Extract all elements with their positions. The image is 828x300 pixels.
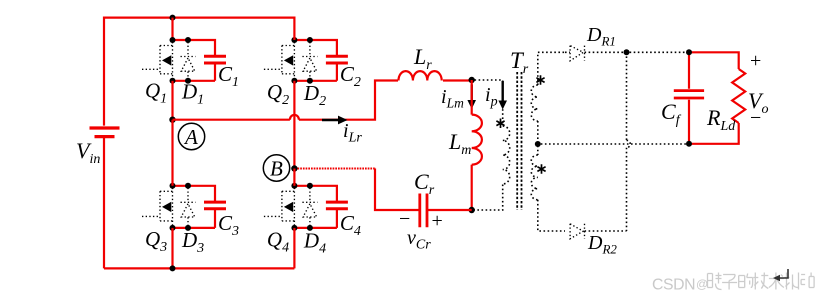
arrow i_p with label xyxy=(485,81,507,110)
transistor Q2 (MOSFET, dotted) xyxy=(264,42,295,108)
wire: secondary center tap lead xyxy=(537,121,539,155)
diode D3 (body diode, dotted) xyxy=(181,188,205,256)
wire: L_m to tank bottom junction xyxy=(471,165,473,210)
capacitor C4 xyxy=(326,202,361,239)
wire: Q2 drain stub xyxy=(293,17,295,41)
wire: D_R2 cathode to link (dotted) xyxy=(585,230,627,232)
transformer secondary upper winding (dotted) xyxy=(531,85,537,121)
wire: Q3 source to bottom rail xyxy=(171,228,173,269)
svg-text:CSDN: CSDN xyxy=(652,277,695,294)
capacitor C2 xyxy=(326,56,361,90)
node A junction xyxy=(169,117,175,123)
wire: bottom rail xyxy=(104,267,294,269)
watermark CSDN xyxy=(652,277,708,294)
svg-text:@: @ xyxy=(696,277,708,291)
arrow i_Lr with label xyxy=(322,116,362,146)
junction dots of cell Q4 xyxy=(291,183,313,231)
svg-text:+: + xyxy=(750,50,761,72)
wire: node B dotted red line to tank xyxy=(298,168,377,170)
svg-text:A: A xyxy=(183,125,198,149)
transistor Q1 (MOSFET, dotted) xyxy=(142,42,173,107)
diode D_R1 (dotted) with label xyxy=(570,24,616,61)
junction dots of cell Q3 xyxy=(170,183,192,231)
junction: tank bottom node xyxy=(469,207,475,213)
wire: cell rails of Q4 xyxy=(294,186,337,228)
transformer primary winding (dotted) xyxy=(503,126,510,184)
svg-text:+: + xyxy=(432,210,443,232)
wire: node A horizontal line xyxy=(173,119,290,121)
diode D_R2 (dotted) with label xyxy=(570,224,617,257)
wire: line to resonant tank xyxy=(299,81,398,120)
wire: cell rails of Q1 xyxy=(173,40,216,81)
node B circled label xyxy=(263,155,289,181)
wire: output top rail red xyxy=(689,52,739,69)
node B junction xyxy=(291,165,297,171)
wire: left leg lower xyxy=(103,138,105,268)
wire: node A to Q3 drain xyxy=(171,120,173,186)
transformer secondary lower winding (dotted) xyxy=(531,155,537,200)
wire: C_r to riser xyxy=(375,169,420,211)
watermark chinese glyph blocks xyxy=(708,273,815,290)
wire: junction to L_m xyxy=(471,80,473,115)
inductor L_m xyxy=(448,115,482,165)
wire: center tap to output - node (dotted) xyxy=(541,143,689,145)
svg-text:B: B xyxy=(270,157,283,181)
wire: Q1 source to node A xyxy=(171,81,173,120)
wire: primary top lead (dotted) xyxy=(475,80,503,125)
junction: output - node at C_f xyxy=(686,141,692,147)
junction: output + node at C_f xyxy=(686,49,692,55)
capacitor C_f with label xyxy=(661,52,704,144)
polarity asterisk: secondary bottom xyxy=(537,164,545,174)
battery V_in xyxy=(76,128,120,167)
node A circled label xyxy=(178,123,204,149)
junction dots of cell Q1 xyxy=(170,37,192,84)
transistor Q3 (MOSFET, dotted) xyxy=(142,188,173,255)
wire: secondary top lead (dotted) xyxy=(538,52,565,85)
label V_o with polarity xyxy=(748,50,768,129)
wire: D_R1 anode rail (dotted) xyxy=(565,51,570,53)
wire: secondary bottom lead (dotted) xyxy=(538,200,565,231)
junction: tank top node xyxy=(469,77,475,83)
junction dots of cell Q2 xyxy=(291,37,313,84)
wire: D_R1 cathode to + node (dotted) xyxy=(585,51,690,53)
svg-text:−: − xyxy=(750,107,761,129)
diode D1 (body diode, dotted) xyxy=(181,42,205,108)
wire: Q4 source to bottom rail xyxy=(293,228,295,269)
wire: Q2 source to node B xyxy=(293,81,295,169)
wire: hop over Q2 leg xyxy=(290,115,299,120)
watermark return arrow xyxy=(773,269,788,281)
polarity asterisk: secondary top xyxy=(536,75,544,85)
polarity asterisk: primary xyxy=(496,119,504,129)
diode D4 (body diode, dotted) xyxy=(302,188,326,257)
wire: top rail xyxy=(104,17,294,19)
capacitor C3 xyxy=(204,202,239,239)
wire: output bottom rail red xyxy=(689,123,739,144)
transformer core (dashed) xyxy=(517,72,521,210)
junction: top rail / Q1 leg xyxy=(170,15,176,21)
wire: cell rails of Q2 xyxy=(294,40,337,81)
wire: node B to Q4 drain xyxy=(293,169,295,186)
inductor L_r xyxy=(399,44,442,81)
wire: left leg upper xyxy=(103,17,105,126)
wire: L_r to junction xyxy=(443,79,472,81)
wire: cell rails of Q3 xyxy=(173,186,216,228)
wire: Q1 drain stub xyxy=(171,18,173,40)
junction: bottom rail / Q3 leg xyxy=(170,265,176,271)
wire: rectifier vertical link with hop (dotted) xyxy=(627,52,631,231)
transistor Q4 (MOSFET, dotted) xyxy=(264,188,295,256)
diode D2 (body diode, dotted) xyxy=(302,42,326,109)
resistor R_Ld with label xyxy=(706,69,745,134)
junction: center tap xyxy=(535,141,541,147)
arrow i_Lm with label xyxy=(441,85,476,111)
capacitor C_r with labels xyxy=(399,169,443,253)
wire: junction to C_r xyxy=(428,209,472,211)
wire: primary bottom lead (dotted) xyxy=(475,185,503,211)
junction: rectifier + node xyxy=(624,49,630,55)
capacitor C1 xyxy=(204,56,239,90)
